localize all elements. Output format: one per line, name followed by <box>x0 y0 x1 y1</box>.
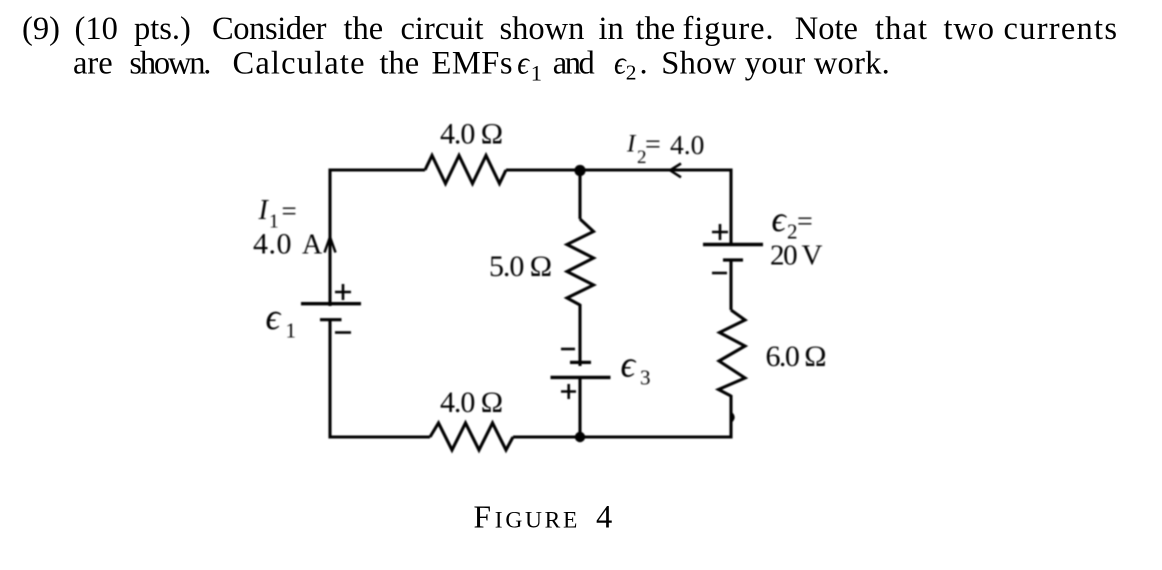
svg-text:Show your work.: Show your work. <box>661 46 890 82</box>
svg-text:I: I <box>626 131 637 158</box>
resistor R2 5.0 ohm (middle) <box>567 219 594 305</box>
plus sign of epsilon-2 <box>712 224 728 240</box>
svg-text:ϵ: ϵ <box>517 46 531 82</box>
battery epsilon-3 short plate (-) <box>570 361 591 364</box>
svg-text:currents: currents <box>1004 11 1118 47</box>
svg-text:EMFs: EMFs <box>432 46 513 82</box>
svg-text:shown.: shown. <box>129 46 211 82</box>
label epsilon-2 = <box>772 199 813 244</box>
svg-text:=: = <box>282 196 297 226</box>
svg-text:4.0 Ω: 4.0 Ω <box>440 386 503 419</box>
wire top-left corner (left branch up + top wire to R1) <box>330 170 425 306</box>
svg-text:(9): (9) <box>22 11 60 47</box>
battery epsilon-1 long plate (+) <box>301 302 361 305</box>
resistor R4 6.0 ohm (right) <box>719 310 746 396</box>
svg-text:the: the <box>636 11 676 47</box>
minus sign of epsilon-2 <box>712 272 727 275</box>
svg-text:in: in <box>599 11 624 47</box>
svg-text:3: 3 <box>640 366 651 390</box>
svg-text:1: 1 <box>286 319 297 343</box>
wire middle (R2 to epsilon-3) <box>578 304 581 366</box>
svg-text:.: . <box>640 46 648 82</box>
svg-text:are: are <box>73 46 113 82</box>
svg-text:4: 4 <box>596 500 612 536</box>
wire top-right corner (node B to epsilon-2) <box>580 170 731 244</box>
wire middle-lower (epsilon-3 to node C) <box>578 377 581 437</box>
resistor R1 4.0 ohm (top) <box>425 156 506 184</box>
svg-text:F: F <box>474 500 492 535</box>
svg-text:ϵ: ϵ <box>621 344 637 385</box>
svg-text:pts.): pts.) <box>134 11 191 47</box>
svg-text:4.0: 4.0 <box>670 129 704 160</box>
svg-text:4.0 Ω: 4.0 Ω <box>440 118 503 151</box>
label I1 = <box>258 195 297 233</box>
wire right-middle (epsilon-2 to R4) <box>729 260 732 310</box>
resistor R3 4.0 ohm (bottom) <box>430 423 513 450</box>
lead bump on right wire <box>732 414 734 422</box>
svg-text:6.0 Ω: 6.0 Ω <box>766 340 827 373</box>
svg-text:20 V: 20 V <box>770 239 823 271</box>
label I2 = 4.0 <box>626 129 704 168</box>
svg-text:the: the <box>380 46 420 82</box>
svg-text:Note: Note <box>795 11 858 47</box>
minus sign of epsilon-3 <box>561 348 575 351</box>
svg-text:circuit: circuit <box>401 11 484 47</box>
battery epsilon-2 short plate (-) <box>723 258 743 261</box>
plus sign of epsilon-1 <box>335 284 351 300</box>
svg-text:IGURE: IGURE <box>495 508 580 534</box>
problem statement line 1 <box>22 11 1117 47</box>
svg-text:5.0 Ω: 5.0 Ω <box>489 250 552 283</box>
svg-text:that: that <box>875 11 927 47</box>
node B junction dot <box>574 165 585 176</box>
battery epsilon-3 long plate (+) <box>551 376 611 379</box>
plus sign of epsilon-3 <box>561 384 576 399</box>
label epsilon-3 <box>621 344 651 390</box>
svg-text:two: two <box>944 11 995 47</box>
wire top-middle (R1 to node B) <box>506 168 580 171</box>
node C junction dot <box>575 432 585 442</box>
current arrow I1 (pointing up) <box>325 237 336 253</box>
svg-text:=: = <box>797 207 813 238</box>
svg-text:(10: (10 <box>75 11 118 47</box>
svg-text:A: A <box>302 229 323 260</box>
svg-text:shown: shown <box>500 11 585 47</box>
wire bottom-middle (node C to R3) <box>513 435 580 438</box>
svg-text:figure.: figure. <box>683 11 774 47</box>
svg-text:the: the <box>344 11 384 47</box>
svg-text:ϵ: ϵ <box>772 199 788 239</box>
label epsilon-1 <box>266 296 297 343</box>
wire bottom-right corner (R4 to node C) <box>580 395 731 437</box>
svg-text:and: and <box>553 46 595 82</box>
svg-text:4.0: 4.0 <box>253 228 292 261</box>
wire bottom-left corner (R3 to epsilon-1) <box>330 321 430 437</box>
svg-text:I: I <box>258 195 270 226</box>
current arrow I2 (pointing left) <box>670 164 681 178</box>
svg-text:Consider: Consider <box>212 11 327 47</box>
svg-text:ϵ: ϵ <box>266 296 282 337</box>
svg-text:Calculate: Calculate <box>233 46 365 82</box>
battery epsilon-2 long plate (+) <box>703 243 763 246</box>
svg-text:1: 1 <box>531 61 542 86</box>
svg-text:2: 2 <box>626 61 637 85</box>
figure caption FIGURE 4 <box>474 500 613 536</box>
battery epsilon-1 short plate (-) <box>320 318 342 321</box>
svg-text:=: = <box>645 130 661 161</box>
problem statement line 2 <box>73 46 890 86</box>
wire middle-upper (node B to R2) <box>578 170 581 219</box>
minus sign of epsilon-1 <box>335 331 351 334</box>
